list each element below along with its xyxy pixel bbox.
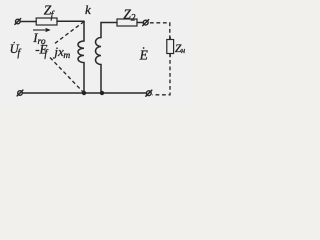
svg-text:m: m [63, 51, 70, 61]
svg-text:н: н [181, 45, 185, 55]
svg-text:jx: jx [52, 44, 64, 59]
svg-text:2: 2 [131, 14, 136, 24]
svg-text:E: E [139, 48, 149, 63]
svg-text:k: k [85, 2, 91, 17]
